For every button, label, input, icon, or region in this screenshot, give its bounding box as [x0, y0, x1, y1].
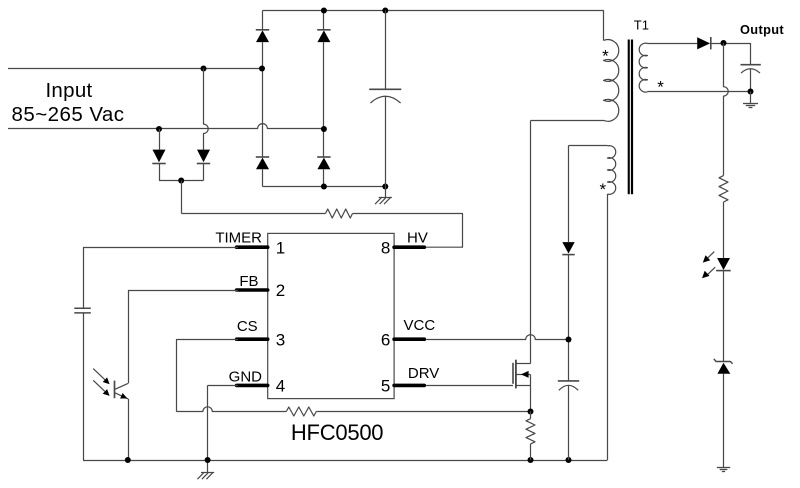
wire primary ground rail — [83, 457, 607, 463]
transformer T1 primary winding — [531, 11, 619, 122]
wire DRV pin to gate — [426, 385, 513, 387]
LED D9 optocoupler emitter with light arrows — [702, 252, 731, 279]
bridge diode D6 (lower right) — [317, 157, 330, 187]
diode D1 (line1 clamp, points down) — [152, 129, 165, 181]
svg-text:T1: T1 — [634, 18, 649, 33]
ground earth secondary bottom — [717, 468, 730, 472]
wire VCC pin to VCC node (arc over drain) — [426, 335, 571, 343]
svg-text:GND: GND — [229, 368, 263, 385]
resistor R4 feedback upper — [719, 176, 728, 258]
wire bridge negative rail — [263, 186, 386, 188]
svg-text:4: 4 — [276, 377, 285, 396]
node MOSFET source junction — [528, 409, 534, 415]
svg-text:3: 3 — [276, 330, 285, 349]
bridge diode D3 (upper left) with leg — [256, 11, 269, 158]
ground chassis at bridge rail — [375, 187, 392, 205]
svg-text:Output: Output — [740, 22, 784, 37]
zener diode D10 (points up, bar hooks) — [714, 359, 733, 467]
svg-text:DRV: DRV — [408, 365, 439, 382]
transformer T1 core — [628, 40, 633, 195]
diode D8 output rectifier (points right) — [697, 37, 750, 49]
label polarity star auxiliary — [599, 180, 606, 199]
svg-text:85~265 Vac: 85~265 Vac — [12, 103, 125, 126]
svg-text:5: 5 — [381, 377, 390, 396]
diode D2 (line2 clamp, points down; lead hops over input line 2) — [197, 69, 210, 181]
wire GND pin to ground — [208, 385, 239, 460]
pin 6 VCC — [381, 317, 436, 350]
wire D1-D2 junction to HV resistor — [159, 178, 204, 214]
diode D7 aux rectifier (points down) — [562, 242, 574, 381]
wire AC input line 2 (hops under D2 drop at x203.5, arc over bridge leg at x262.5) — [8, 124, 324, 129]
ground chassis primary (GND net) — [197, 460, 214, 479]
resistor R2 on CS line — [286, 407, 530, 416]
IC U1 HFC0500 body — [268, 233, 394, 398]
svg-text:TIMER: TIMER — [215, 229, 262, 246]
svg-text:1: 1 — [276, 238, 285, 257]
label HFC0500 — [291, 420, 383, 445]
svg-text:FB: FB — [239, 273, 258, 290]
capacitor C2 timer on left rail — [74, 247, 91, 460]
capacitor C3 VCC — [558, 381, 579, 460]
wire aux bottom lead to ground rail — [607, 194, 609, 460]
wire AC input line 1 — [8, 68, 262, 70]
label polarity star primary — [602, 47, 609, 66]
pin 1 TIMER — [215, 229, 285, 257]
ground earth output — [743, 92, 758, 108]
transistor Q1 power MOSFET — [513, 360, 531, 412]
transformer T1 secondary winding — [639, 43, 647, 92]
node junction dots bridge — [156, 8, 388, 190]
svg-text:8: 8 — [381, 238, 390, 257]
svg-text:2: 2 — [276, 281, 285, 300]
svg-text:*: * — [602, 47, 609, 66]
wire feedback divider (hops over secondary return) — [724, 43, 729, 176]
pin 3 CS — [237, 318, 286, 350]
svg-text:CS: CS — [237, 318, 258, 335]
resistor R1 startup on HV line — [182, 209, 463, 247]
label Output — [740, 22, 784, 37]
svg-text:*: * — [599, 180, 606, 199]
svg-text:Input: Input — [45, 79, 92, 102]
wire drain to primary winding — [530, 121, 532, 364]
bridge diode D4 (upper right) with leg — [317, 11, 330, 158]
svg-text:HFC0500: HFC0500 — [291, 420, 383, 445]
svg-text:*: * — [657, 78, 664, 97]
label polarity star secondary — [657, 78, 664, 97]
pin 2 FB — [237, 273, 286, 300]
wire TIMER to left rail — [83, 247, 238, 249]
wire secondary bottom lead — [648, 89, 754, 95]
transformer T1 auxiliary winding — [608, 146, 616, 195]
wire LED cathode to zener — [723, 271, 725, 362]
transformer T1 label — [634, 18, 649, 33]
resistor R3 current sense — [526, 412, 535, 461]
wire DC+ top rail — [263, 10, 604, 12]
wire secondary top lead — [648, 43, 698, 45]
wire FB to optocoupler collector — [128, 290, 238, 383]
optocoupler phototransistor U2 with light arrows — [93, 369, 128, 460]
bridge diode D5 (lower left) — [256, 157, 269, 187]
wire aux top lead — [569, 146, 608, 243]
label Input 85~265 Vac — [12, 79, 125, 126]
pin 8 HV — [381, 229, 428, 257]
svg-text:6: 6 — [381, 330, 390, 349]
svg-text:HV: HV — [407, 229, 428, 246]
svg-text:VCC: VCC — [404, 317, 436, 334]
capacitor C4 output — [741, 43, 761, 91]
wire CS down and across (arc over GND drop) — [176, 339, 286, 412]
pin 4 GND — [229, 368, 286, 395]
capacitor C1 bulk with leads — [369, 11, 401, 187]
pin 5 DRV — [381, 365, 439, 396]
